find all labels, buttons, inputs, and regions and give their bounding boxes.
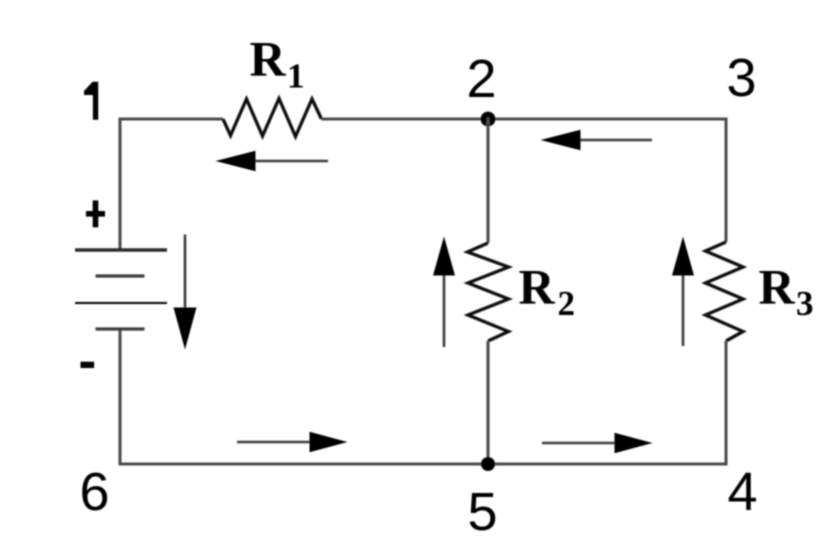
resistor R2 <box>468 243 509 341</box>
node 2 junction dot <box>481 112 496 127</box>
label R2 <box>519 259 576 324</box>
wire battery bottom to node 6 corner <box>118 330 121 464</box>
svg-text:2: 2 <box>466 49 496 109</box>
svg-text:5: 5 <box>467 482 497 542</box>
battery B1 plate long lower <box>75 302 167 304</box>
resistor R1 <box>223 99 322 137</box>
current arrow beside R2 (up) <box>433 237 455 348</box>
wire node 2 to R2 <box>486 118 489 244</box>
svg-text:6: 6 <box>79 462 109 522</box>
svg-text:R: R <box>250 31 287 87</box>
wire top: R1 to node 3 corner <box>322 117 727 120</box>
label battery plus <box>86 200 105 227</box>
wire right branch vertical (node 3 to R3) <box>724 118 727 243</box>
label R3 <box>759 259 814 324</box>
current arrow beside R3 (up) <box>672 237 694 347</box>
svg-text:1: 1 <box>287 57 305 96</box>
current arrow bottom-right segment (right) <box>542 433 653 453</box>
resistor R3 <box>706 242 744 341</box>
wire node1 corner: left vertical top + top-left horizontal <box>120 119 223 249</box>
current arrow top-right segment (left) <box>541 130 653 150</box>
node 5 junction dot <box>481 457 495 471</box>
svg-text:2: 2 <box>558 284 576 323</box>
battery B1 plate long top (positive) <box>75 248 167 251</box>
battery B1 plate short bottom (negative) <box>96 327 145 330</box>
current arrow under R1 (left) <box>216 151 329 172</box>
current arrow bottom-left segment (right) <box>237 432 348 452</box>
svg-text:3: 3 <box>726 48 756 108</box>
wire R3 to node 4 corner <box>724 341 727 464</box>
node 1 label <box>84 82 98 120</box>
svg-text:3: 3 <box>796 284 814 323</box>
battery B1 plate short upper <box>96 274 145 277</box>
wire R2 to node 5 <box>486 341 489 464</box>
label R1 <box>250 31 305 96</box>
wire bottom: node 6 to node 4 <box>119 462 728 465</box>
svg-text:R: R <box>759 259 796 315</box>
svg-text:R: R <box>519 259 556 315</box>
svg-text:4: 4 <box>727 462 757 522</box>
current arrow through battery (down) <box>174 235 197 350</box>
label battery minus <box>81 362 95 368</box>
